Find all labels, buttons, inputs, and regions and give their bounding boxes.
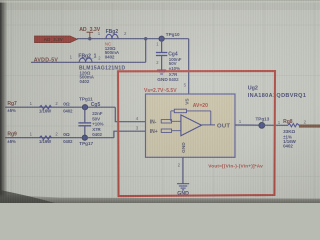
wire OUT to Rg8 — [264, 124, 288, 126]
resistor Rg8 — [278, 119, 307, 149]
wire AD_3.3V rail — [77, 38, 189, 40]
test point TPg17 on junction — [79, 135, 93, 146]
photo top edge line — [0, 0, 320, 2]
wire Cg5 lower — [84, 126, 86, 137]
node AD_3.3V junction — [88, 37, 91, 40]
test point TPg13 — [256, 117, 270, 129]
wire Rg9 input row — [5, 137, 114, 139]
wire AVDD-5V rail — [31, 61, 146, 63]
power port AD_3.3V (red arrow) — [35, 36, 78, 43]
test point TPg11 — [79, 96, 93, 109]
photo bottom dark edge — [0, 195, 320, 204]
wire output off-sheet — [299, 125, 320, 128]
wire VS corner down to pin 5 — [188, 39, 190, 94]
capacitor Cg4 — [156, 51, 182, 82]
wire Cg4 to ground — [161, 56, 163, 70]
ferrite bead FBg2_1 — [70, 53, 126, 84]
ferrite bead FBg2 — [98, 29, 127, 60]
node VS junction — [144, 37, 147, 40]
wire corner into pin 3 — [114, 131, 146, 138]
capacitor Cg5 branch — [84, 107, 86, 122]
ground (U g2) — [177, 184, 189, 190]
highlight red box — [118, 71, 275, 196]
internal resistor (IN+) — [161, 129, 181, 132]
op-amp triangle — [181, 115, 202, 136]
wire Rg7 input row — [5, 106, 115, 108]
power port bar AD_3.3V — [87, 32, 94, 38]
capacitor C g4 branch wire — [161, 39, 163, 52]
pin 1 wire (OUT) — [235, 124, 264, 126]
internal out wire — [202, 124, 216, 126]
feedback resistor — [171, 109, 211, 125]
wire AVDD riser — [145, 39, 147, 63]
pin 2 wire (GND) — [182, 157, 184, 183]
op-amp U g2 body — [146, 94, 236, 157]
resistor Rg9 — [7, 131, 73, 144]
test point TPg10 — [159, 32, 180, 41]
wire corner into pin 4 — [115, 107, 145, 122]
internal resistor (IN-) — [161, 120, 181, 123]
ground (Cg4) — [157, 70, 166, 74]
photo left dark edge — [0, 0, 8, 203]
photo bottom-left dark corner — [0, 190, 55, 203]
resistor Rg7 — [7, 101, 73, 114]
capacitor Cg5 — [78, 102, 103, 137]
